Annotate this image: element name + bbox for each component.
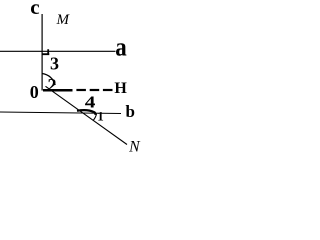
angle 2 arc [42,74,55,86]
ray OH dash 2 [90,89,100,91]
ray OH solid part [43,89,73,92]
angle 4 arc [77,110,95,115]
svg-text:M: M [56,12,71,28]
svg-text:N: N [128,138,141,154]
line MN (transversal) [46,86,128,144]
svg-text:3: 3 [50,54,59,74]
svg-text:H: H [114,80,127,97]
svg-text:0: 0 [30,82,39,102]
angle 1 arc [93,114,96,121]
svg-text:2: 2 [48,75,57,95]
line c [41,14,43,91]
svg-text:a: a [115,33,127,62]
ray OH dash 3 [103,89,113,91]
ray OH dash 1 [76,89,86,91]
svg-text:b: b [126,102,135,121]
right-angle mark at c,a [42,49,49,55]
svg-text:c: c [30,0,39,19]
line a [0,50,116,52]
svg-text:1: 1 [97,108,104,123]
line b [0,112,121,114]
svg-text:4: 4 [85,93,96,112]
